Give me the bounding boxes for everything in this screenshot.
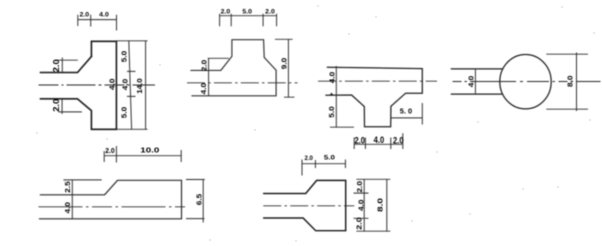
svg-text:14.0: 14.0 [135, 78, 144, 94]
dimension F6 top 2.0/5.0 [302, 160, 345, 176]
svg-text:4.0: 4.0 [108, 78, 117, 90]
svg-text:4.0: 4.0 [327, 72, 336, 84]
svg-text:2.0: 2.0 [304, 155, 313, 162]
svg-text:2.0: 2.0 [52, 98, 61, 111]
centerline F1 [39, 84, 156, 86]
svg-text:5.0: 5.0 [242, 8, 252, 15]
svg-text:5. 0: 5. 0 [400, 107, 412, 116]
svg-text:2.0: 2.0 [354, 135, 365, 145]
wire F4 bar top edge [451, 68, 501, 70]
centerline F3 [318, 80, 437, 82]
dimension F1 top line 2.0/4.0 [78, 15, 117, 31]
dimension F4 4.0 [474, 69, 476, 94]
svg-text:2.0: 2.0 [80, 12, 90, 19]
dimension F1 left lower 2.0 [58, 99, 82, 114]
dimension F4 8.0 [546, 53, 588, 112]
profile outline F3 [326, 67, 422, 127]
svg-text:10.0: 10.0 [140, 146, 159, 155]
dimension F6 right 8.0 [386, 179, 388, 231]
svg-text:2.0: 2.0 [355, 217, 364, 230]
profile outline F2 [191, 40, 276, 96]
dimension F3 right 5.0 [391, 103, 423, 125]
svg-text:2.5: 2.5 [63, 181, 72, 193]
svg-text:5.0: 5.0 [120, 51, 129, 63]
wire F4 bar bottom edge [451, 93, 501, 95]
svg-text:4.0: 4.0 [356, 200, 365, 212]
svg-text:4.0: 4.0 [99, 11, 109, 18]
centerline F5 [39, 206, 186, 208]
dimension F1 right lines 5.0/4.0/5.0 and 14.0 [116, 41, 147, 130]
dimension F2 top line 2.0/5.0/2.0 [220, 14, 277, 26]
arrow F3 left [329, 93, 333, 96]
dimension F5 left 2.5/4.0 [63, 180, 101, 219]
profile outline F6 [264, 180, 346, 230]
wire F1 arm top edge [41, 57, 92, 73]
svg-text:2.0: 2.0 [52, 59, 61, 72]
dimension F3 left 4.0/5.0 [330, 66, 354, 127]
svg-text:2.0: 2.0 [265, 8, 275, 15]
dimension F3 bottom 2.0/4.0/2.0 [354, 133, 403, 149]
svg-text:8.0: 8.0 [375, 198, 384, 212]
circle F4 [500, 54, 551, 108]
svg-text:9.0: 9.0 [279, 58, 288, 70]
profile outline F1 [41, 41, 117, 129]
svg-text:4.0: 4.0 [63, 202, 72, 214]
svg-text:5.0: 5.0 [324, 154, 336, 161]
svg-text:4.0: 4.0 [466, 76, 475, 88]
svg-text:2.0: 2.0 [393, 135, 404, 145]
svg-text:4.0: 4.0 [121, 79, 130, 91]
svg-text:5.0: 5.0 [327, 106, 336, 118]
profile outline F5 [40, 180, 182, 219]
dimension F5 right 6.5 [186, 180, 205, 223]
dimension F5 top 2.0/10.0 [104, 146, 181, 163]
svg-text:4.0: 4.0 [199, 83, 208, 95]
svg-text:4.0: 4.0 [374, 135, 385, 145]
dimension F2 right 9.0 [275, 39, 295, 97]
centerline F4 [453, 81, 601, 83]
svg-text:2.0: 2.0 [355, 181, 364, 193]
centerline F2 [187, 82, 298, 84]
dimension F6 right 2.0/4.0/2.0 [354, 179, 391, 231]
svg-text:2.0: 2.0 [199, 60, 208, 72]
dimension F1 left upper 2.0 [57, 58, 78, 73]
centerline F6 [263, 205, 354, 207]
svg-text:6.5: 6.5 [194, 194, 203, 206]
dimension F2 left 2.0/4.0 [208, 58, 229, 96]
svg-text:8.0: 8.0 [565, 75, 574, 87]
svg-text:2.0: 2.0 [105, 146, 114, 155]
svg-text:5.0: 5.0 [120, 107, 129, 119]
svg-text:2.0: 2.0 [221, 9, 231, 16]
